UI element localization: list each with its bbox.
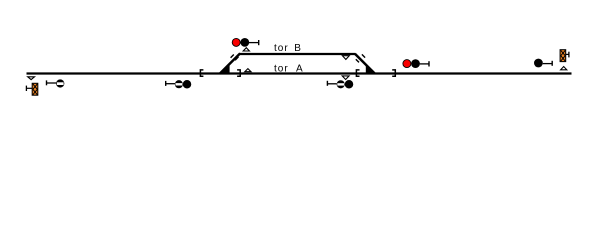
svg-text:B: B	[294, 43, 301, 54]
shunt signal S2 (below line, two heads)	[166, 80, 192, 89]
marker triangle up right of left turnout	[245, 69, 251, 72]
svg-text:tor: tor	[274, 63, 289, 74]
track section bracket ] right	[392, 70, 395, 76]
level crossing box left	[26, 83, 37, 95]
wire right turnout diagonal	[355, 54, 375, 74]
svg-text:A: A	[296, 63, 303, 74]
marker triangle up at right crossing	[561, 67, 567, 70]
main signal S3 (top, red+black, for tor B)	[232, 38, 259, 47]
shunt signal S1 (left, below line)	[47, 79, 65, 87]
signal S6 (above line, black disc, right end)	[534, 59, 552, 68]
insulation marks on right diagonal	[356, 54, 365, 62]
shunt signal S4 (below line, two heads, right)	[327, 80, 353, 89]
svg-text:tor: tor	[274, 43, 289, 54]
track section bracket ] left	[237, 70, 240, 76]
wire loop track tor B	[239, 53, 355, 55]
main signal S5 (above line, red+black)	[403, 59, 429, 68]
track section bracket [ right	[356, 70, 359, 76]
marker triangle down below loop line	[342, 56, 349, 60]
wire left turnout diagonal	[220, 53, 240, 73]
switch position wedge W1	[220, 64, 230, 74]
marker triangle down at line start	[28, 77, 35, 80]
insulation marks on left diagonal	[231, 55, 239, 61]
track section bracket [ left	[200, 70, 203, 76]
switch position wedge W2	[366, 65, 375, 74]
marker triangle up below top signal	[243, 48, 249, 51]
wire main track tor A	[27, 72, 572, 74]
marker triangle down below main line at right turnout	[342, 76, 349, 80]
level crossing box right	[560, 50, 569, 62]
